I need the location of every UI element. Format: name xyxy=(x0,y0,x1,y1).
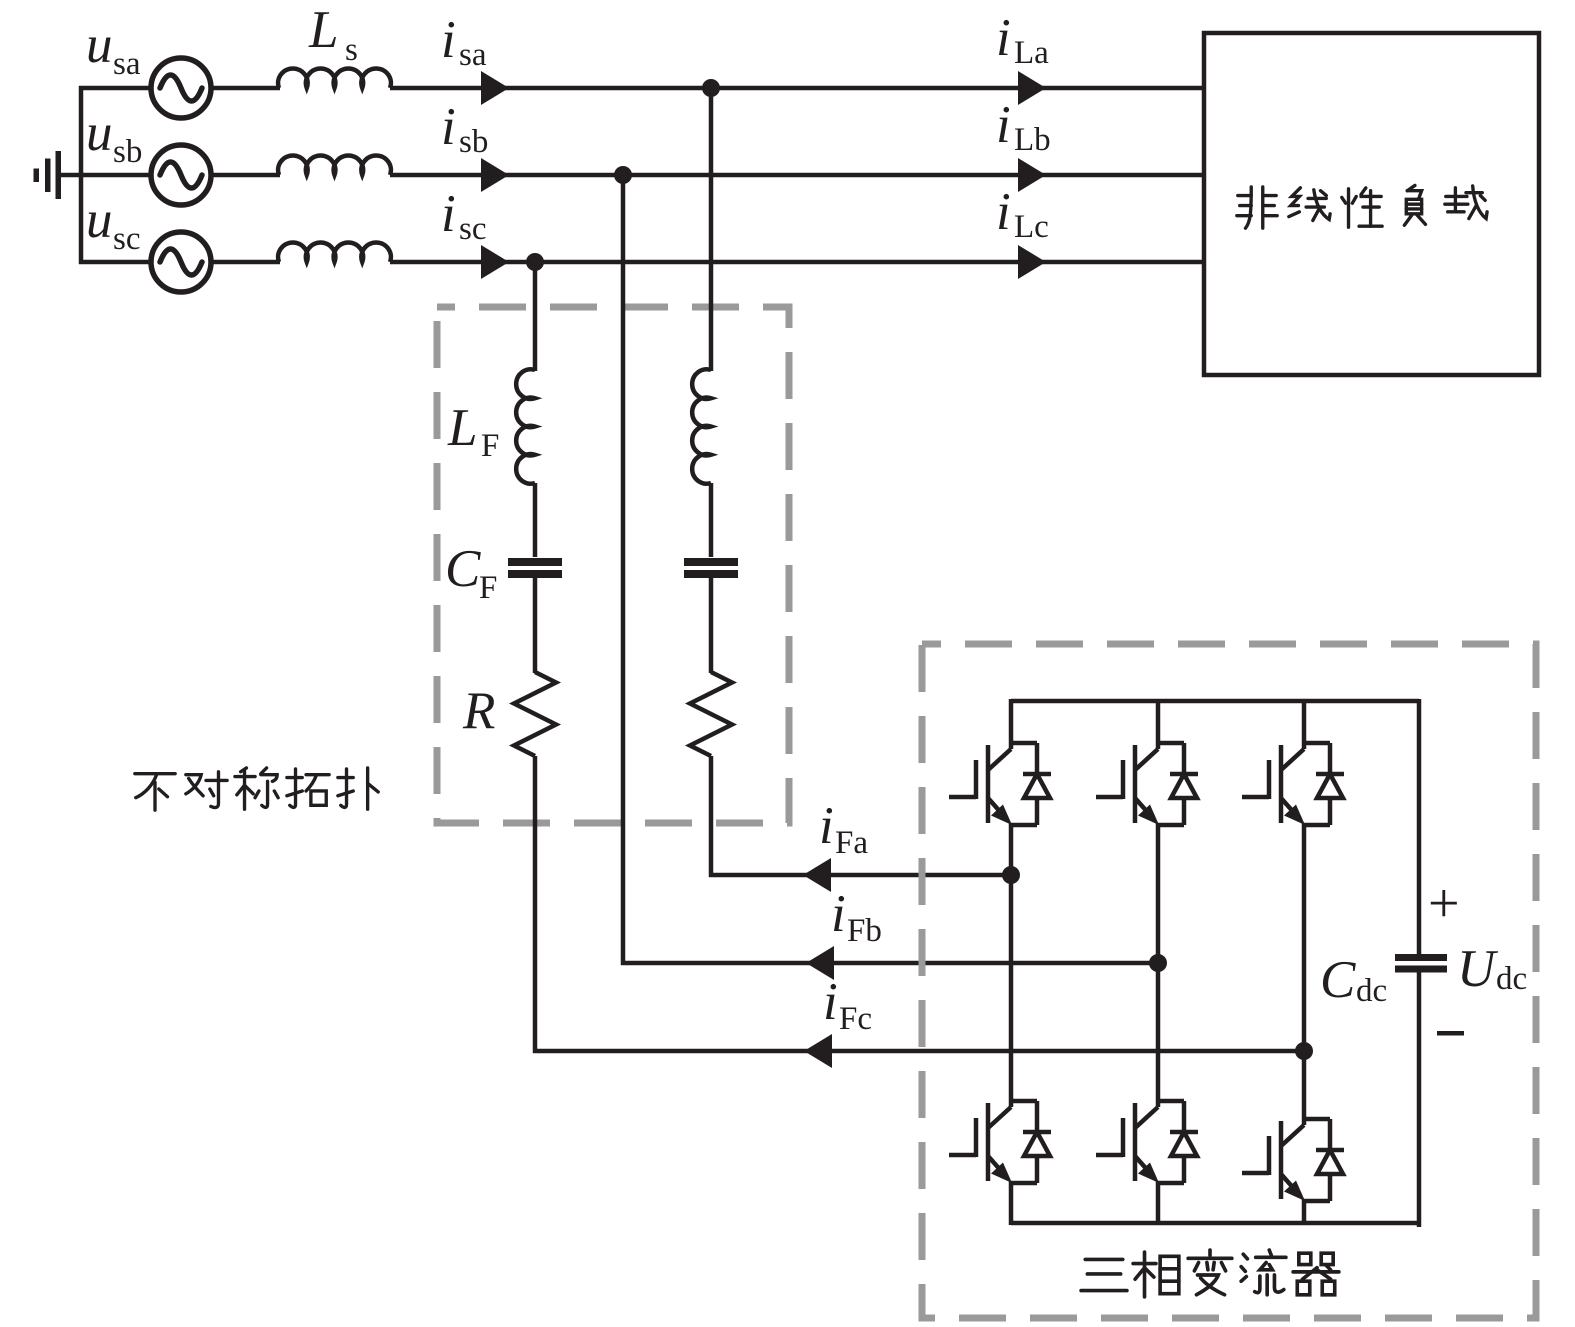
svg-text:dc: dc xyxy=(1496,961,1527,997)
label three-phase converter (Chinese) xyxy=(1081,1250,1339,1297)
ground xyxy=(34,151,62,199)
wire branch a L to C xyxy=(709,483,714,557)
svg-text:i: i xyxy=(831,885,846,943)
wire top bus xyxy=(1011,699,1419,704)
svg-text:F: F xyxy=(481,428,499,464)
svg-text:Lc: Lc xyxy=(1014,209,1049,245)
arrow iLa xyxy=(1018,71,1046,105)
transistor V6 xyxy=(1096,1101,1198,1183)
wire phase c to arrow xyxy=(390,260,484,265)
inductor Ls phase a xyxy=(278,68,391,88)
node leg a xyxy=(1002,866,1020,884)
arrow iLc xyxy=(1018,245,1046,279)
svg-text:R: R xyxy=(462,682,495,740)
svg-text:i: i xyxy=(441,11,456,69)
label nonlinear load (Chinese) xyxy=(1237,185,1487,228)
arrow iFc xyxy=(804,1034,832,1068)
resistor R branch a xyxy=(690,672,732,756)
arrow isb xyxy=(481,158,509,192)
svg-text:C: C xyxy=(1320,951,1356,1009)
wire iFb horizontal xyxy=(621,961,1158,966)
svg-text:u: u xyxy=(86,191,113,249)
svg-text:L: L xyxy=(308,1,338,59)
svg-text:F: F xyxy=(479,570,497,606)
nonlinear load box xyxy=(1204,33,1539,375)
wire branch c drop upper xyxy=(533,262,538,371)
wire phase b to arrow xyxy=(390,173,484,178)
dashed box three-phase converter xyxy=(922,644,1536,1318)
arrow iFa xyxy=(803,858,831,892)
svg-text:+: + xyxy=(1428,873,1460,935)
svg-text:sc: sc xyxy=(113,221,141,257)
svg-text:Fc: Fc xyxy=(839,1001,872,1037)
wire phase c left xyxy=(79,260,152,265)
svg-text:i: i xyxy=(996,183,1011,241)
wire leg c lower xyxy=(1302,1199,1307,1225)
svg-text:U: U xyxy=(1457,940,1499,998)
transistor V4 xyxy=(949,1101,1051,1183)
transistor V5 xyxy=(1242,743,1344,825)
node phase b tap xyxy=(614,166,632,184)
wire phase c right xyxy=(505,260,1204,265)
wire ground stub xyxy=(61,173,81,178)
svg-text:sc: sc xyxy=(459,211,487,247)
wire phase a left xyxy=(79,86,152,91)
wire phase b left xyxy=(79,173,152,178)
wire phase a to arrow xyxy=(390,86,484,91)
transistor V2 xyxy=(1242,1119,1344,1201)
wire source bus xyxy=(79,86,84,264)
wire leg b upper xyxy=(1156,699,1161,749)
wire phase c mid xyxy=(211,260,280,265)
inductor LF branch a xyxy=(692,369,711,483)
wire leg c middle xyxy=(1302,823,1307,1125)
capacitor CF branch c xyxy=(508,558,562,578)
inductor Ls phase b xyxy=(278,155,391,175)
svg-text:Lb: Lb xyxy=(1014,122,1051,158)
svg-text:i: i xyxy=(996,9,1011,67)
svg-text:i: i xyxy=(819,797,834,855)
svg-text:u: u xyxy=(86,104,113,162)
source Usb xyxy=(151,145,211,205)
svg-text:Fa: Fa xyxy=(835,825,868,861)
arrow iFb xyxy=(806,946,834,980)
wire branch c R down xyxy=(533,756,538,1053)
node leg c xyxy=(1295,1042,1313,1060)
node leg b xyxy=(1149,954,1167,972)
svg-text:Fb: Fb xyxy=(847,913,882,949)
wire branch c C to R xyxy=(533,577,538,673)
wire branch a drop upper xyxy=(709,88,714,371)
svg-text:i: i xyxy=(441,185,456,243)
wire phase b mid xyxy=(211,173,280,178)
wire iFc horizontal xyxy=(533,1049,1304,1054)
wire dc branch lower xyxy=(1417,971,1422,1227)
wire branch a R down xyxy=(709,756,714,877)
svg-text:La: La xyxy=(1014,35,1049,71)
svg-text:L: L xyxy=(447,399,477,457)
svg-text:sb: sb xyxy=(113,134,142,170)
svg-text:sb: sb xyxy=(459,124,488,160)
wire bottom bus xyxy=(1011,1221,1419,1226)
svg-text:i: i xyxy=(441,98,456,156)
svg-text:i: i xyxy=(823,973,838,1031)
transistor V1 xyxy=(949,743,1051,825)
node phase c tap xyxy=(526,253,544,271)
wire leg b lower xyxy=(1156,1181,1161,1225)
wire phase a right xyxy=(505,86,1204,91)
svg-text:u: u xyxy=(86,16,113,74)
arrow iLb xyxy=(1018,158,1046,192)
node phase a tap xyxy=(702,79,720,97)
svg-text:dc: dc xyxy=(1356,973,1387,1009)
wire dc branch upper xyxy=(1417,699,1422,955)
wire leg a middle xyxy=(1009,823,1014,1107)
svg-text:sa: sa xyxy=(113,46,141,82)
wire branch a C to R xyxy=(709,577,714,673)
wire leg a upper xyxy=(1009,699,1014,749)
resistor R branch c xyxy=(514,672,556,756)
wire branch c L to C xyxy=(533,483,538,557)
capacitor CF branch a xyxy=(684,558,738,578)
svg-text:C: C xyxy=(445,540,481,598)
wire branch b drop xyxy=(621,175,626,965)
inductor Ls phase c xyxy=(278,242,391,262)
source Usa xyxy=(151,58,211,118)
label minus xyxy=(1437,1031,1464,1036)
transistor V3 xyxy=(1096,743,1198,825)
wire leg a lower xyxy=(1009,1181,1014,1225)
svg-text:i: i xyxy=(996,96,1011,154)
svg-text:sa: sa xyxy=(459,37,487,73)
source Usc xyxy=(151,232,211,292)
label asymmetric topology (Chinese) xyxy=(135,768,378,810)
wire phase b right xyxy=(505,173,1204,178)
dashed box asymmetric topology xyxy=(437,307,789,823)
wire leg b middle xyxy=(1156,823,1161,1107)
svg-text:s: s xyxy=(345,32,358,68)
capacitor Cdc xyxy=(1395,954,1447,973)
arrow isa xyxy=(481,71,509,105)
wire iFa horizontal xyxy=(709,873,1011,878)
inductor LF branch c xyxy=(516,369,535,483)
wire phase a mid xyxy=(211,86,280,91)
arrow isc xyxy=(481,245,509,279)
wire leg c upper xyxy=(1302,699,1307,749)
